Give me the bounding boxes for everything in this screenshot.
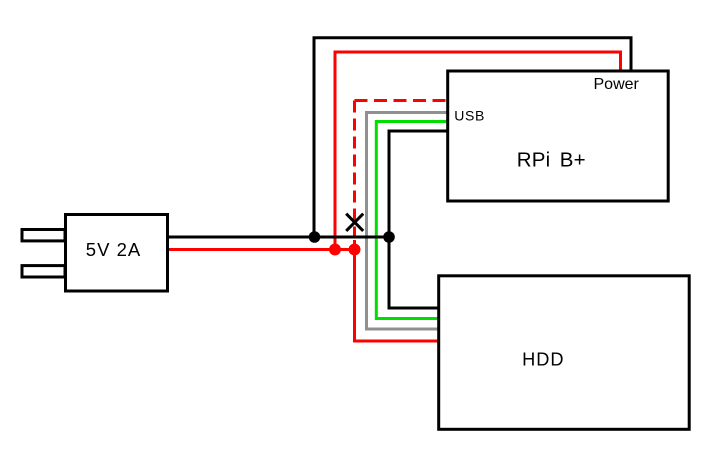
plug prong top <box>22 230 65 241</box>
wire: black negative from PSU junction up and over to RPi Power <box>314 38 631 238</box>
X cut mark on dashed wire <box>346 214 363 231</box>
svg-text:HDD: HDD <box>522 350 564 370</box>
node: black junction right <box>383 231 395 243</box>
wire: red dashed (cut) USB 5V line, vertical run down to junction <box>353 101 356 249</box>
node: red junction left <box>329 244 341 256</box>
node: black junction left <box>309 231 321 243</box>
HDD box <box>439 276 690 430</box>
wire: red positive up and over to RPi Power <box>335 52 621 248</box>
plug prong bottom <box>22 266 65 277</box>
wire: black USB data/ground line from RPi to HDD <box>389 131 448 308</box>
wire: red solid from junction down to HDD <box>355 240 439 341</box>
wire: green USB line from RPi to HDD <box>376 122 448 319</box>
svg-text:Power: Power <box>594 76 640 93</box>
wire: black from PSU to junction node <box>167 236 389 239</box>
wire: gray USB line from RPi to HDD <box>367 113 449 330</box>
RPi B+ box <box>448 71 669 201</box>
wire: red dashed (cut) USB 5V line, horizontal run to RPi USB <box>355 99 449 102</box>
svg-text:5V 2A: 5V 2A <box>86 239 141 260</box>
svg-text:USB: USB <box>454 108 485 124</box>
node: red junction right <box>349 244 361 256</box>
power supply 5V 2A box <box>66 215 168 292</box>
wire: red from PSU to junction node <box>167 248 355 251</box>
